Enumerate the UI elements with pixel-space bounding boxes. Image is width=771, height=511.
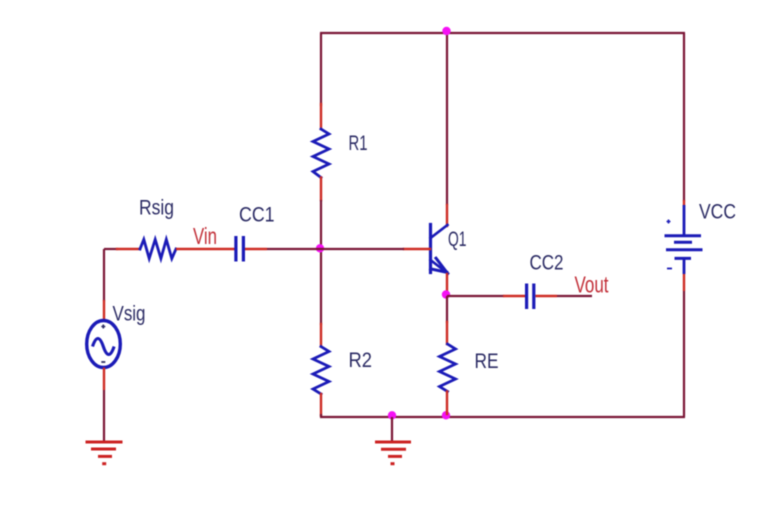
wire CC1 to junction xyxy=(267,248,321,250)
wire emitter node to CC2 xyxy=(447,295,504,297)
svg-text:Vin: Vin xyxy=(193,223,217,249)
capacitor CC1 xyxy=(234,236,267,262)
svg-text:Rsig: Rsig xyxy=(139,197,174,220)
junction dot ground tap xyxy=(388,411,396,419)
resistor RE xyxy=(440,322,456,414)
wire base (junction to Q1) xyxy=(321,248,404,250)
svg-text:R2: R2 xyxy=(349,349,373,372)
resistor Rsig xyxy=(117,240,176,259)
source Vsig xyxy=(87,300,121,390)
battery VCC xyxy=(665,200,703,291)
ground (middle) xyxy=(375,417,411,465)
wire Vin segment (red) xyxy=(176,248,236,250)
wire right rail upper xyxy=(683,33,685,201)
junction dot top rail xyxy=(442,27,450,35)
wire Vsig drop xyxy=(103,249,105,301)
svg-text:CC1: CC1 xyxy=(239,204,275,227)
wire right rail lower xyxy=(683,291,685,417)
wire left rail (top corner to R1) xyxy=(320,33,322,106)
svg-text:RE: RE xyxy=(475,350,499,373)
junction dot base node xyxy=(316,244,324,252)
wire emitter drop to RE xyxy=(446,296,448,323)
wire Vsig to ground xyxy=(103,390,105,442)
svg-text:VCC: VCC xyxy=(699,201,736,224)
svg-text:R1: R1 xyxy=(349,132,368,155)
wire input rail left xyxy=(104,248,118,250)
wire collector drop xyxy=(446,33,448,205)
svg-text:Q1: Q1 xyxy=(448,228,467,251)
wire top rail xyxy=(320,32,685,34)
transistor Q1 xyxy=(404,205,448,293)
svg-text:Vout: Vout xyxy=(575,272,609,298)
svg-text:Vsig: Vsig xyxy=(113,303,146,326)
wire bottom rail xyxy=(320,416,685,418)
wire left rail (R1 to R2) xyxy=(320,200,322,325)
wire output stub xyxy=(557,295,592,297)
junction dot RE bottom xyxy=(442,411,450,419)
capacitor CC2 xyxy=(503,284,557,310)
junction dot emitter node xyxy=(442,290,450,298)
resistor R2 xyxy=(313,324,329,416)
svg-text:CC2: CC2 xyxy=(530,252,564,275)
resistor R1 xyxy=(313,104,329,200)
ground (left) xyxy=(86,442,123,465)
